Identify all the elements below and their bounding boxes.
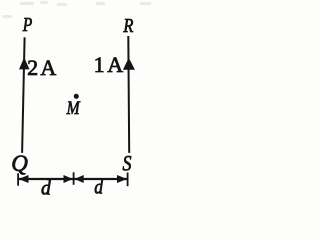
dimension tick at midpoint <box>73 172 75 185</box>
right arrowhead pointing right <box>117 175 127 183</box>
dimension line QS <box>18 178 128 180</box>
middle arrowhead pointing right <box>64 175 73 183</box>
wire PQ <box>22 37 25 153</box>
dimension tick at Q <box>17 173 19 185</box>
svg-text:S: S <box>123 151 132 176</box>
current arrow on wire PQ <box>19 57 30 69</box>
svg-text:P: P <box>22 14 32 36</box>
svg-text:R: R <box>123 15 134 37</box>
svg-text:1: 1 <box>94 52 105 77</box>
dimension tick at S <box>127 173 129 187</box>
svg-text:d: d <box>41 175 51 199</box>
svg-text:M: M <box>66 98 81 119</box>
current arrow on wire RS <box>123 58 135 70</box>
svg-text:d: d <box>94 175 103 199</box>
middle arrowhead pointing left <box>74 175 83 183</box>
faint scan noise top edge <box>2 1 151 18</box>
svg-text:2: 2 <box>27 55 38 80</box>
svg-text:A: A <box>40 55 56 80</box>
svg-text:A: A <box>107 52 123 77</box>
point M dot <box>74 94 79 99</box>
svg-text:Q: Q <box>11 151 28 176</box>
wire RS <box>127 36 130 153</box>
left arrowhead pointing left <box>19 175 29 183</box>
